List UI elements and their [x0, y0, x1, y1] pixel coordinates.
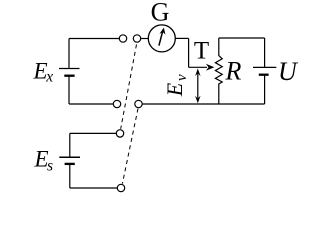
wire Es down	[69, 164, 71, 188]
label R	[225, 57, 242, 86]
switch dashed link B	[122, 109, 138, 184]
battery Ex plates	[59, 69, 80, 76]
wire Es left down	[69, 133, 71, 157]
svg-text:R: R	[225, 57, 242, 86]
label Ex	[33, 59, 54, 86]
svg-text:E: E	[162, 82, 187, 97]
wire contact to galvanometer	[141, 38, 149, 40]
label Es	[34, 147, 54, 175]
wire top-left from Ex to switch contact	[69, 38, 119, 40]
wire Es top	[70, 132, 117, 134]
wire right side down to battery U	[264, 38, 266, 67]
wire Ex down to bottom	[68, 76, 70, 104]
wire down to wiper	[188, 38, 190, 67]
switch contact middle-right	[135, 100, 142, 107]
label U	[278, 57, 299, 86]
wiper wire with arrow into R	[189, 64, 215, 71]
label G	[151, 0, 170, 27]
galvanometer needle	[159, 28, 166, 46]
svg-text:x: x	[45, 69, 53, 86]
resistor R zigzag branch	[215, 38, 222, 104]
wire battery U down	[264, 75, 266, 104]
svg-text:s: s	[47, 158, 53, 175]
svg-text:U: U	[278, 57, 299, 86]
galvanometer G circle	[148, 25, 175, 52]
wire top of right loop	[219, 37, 265, 39]
battery Ex branch	[68, 39, 70, 68]
svg-text:E: E	[33, 59, 48, 84]
label T	[194, 38, 209, 65]
switch contact middle-left	[113, 100, 120, 107]
wire galvanometer to corner	[175, 37, 188, 39]
wire Es bottom	[70, 187, 117, 189]
switch dashed link A	[121, 45, 137, 129]
battery U plates	[253, 67, 276, 74]
switch contact Es top	[116, 130, 123, 137]
label Ev (rotated)	[162, 74, 190, 97]
battery Es plates	[59, 157, 80, 164]
switch contact top-left	[119, 35, 126, 42]
svg-text:G: G	[151, 0, 170, 27]
switch contact Es bottom	[117, 184, 124, 191]
svg-text:T: T	[194, 38, 209, 65]
bottom wire of right loop	[142, 103, 264, 105]
svg-text:v: v	[174, 74, 190, 81]
bottom wire of Ex loop	[69, 103, 113, 105]
Ev double arrow	[195, 69, 201, 104]
switch contact top-right	[133, 35, 140, 42]
